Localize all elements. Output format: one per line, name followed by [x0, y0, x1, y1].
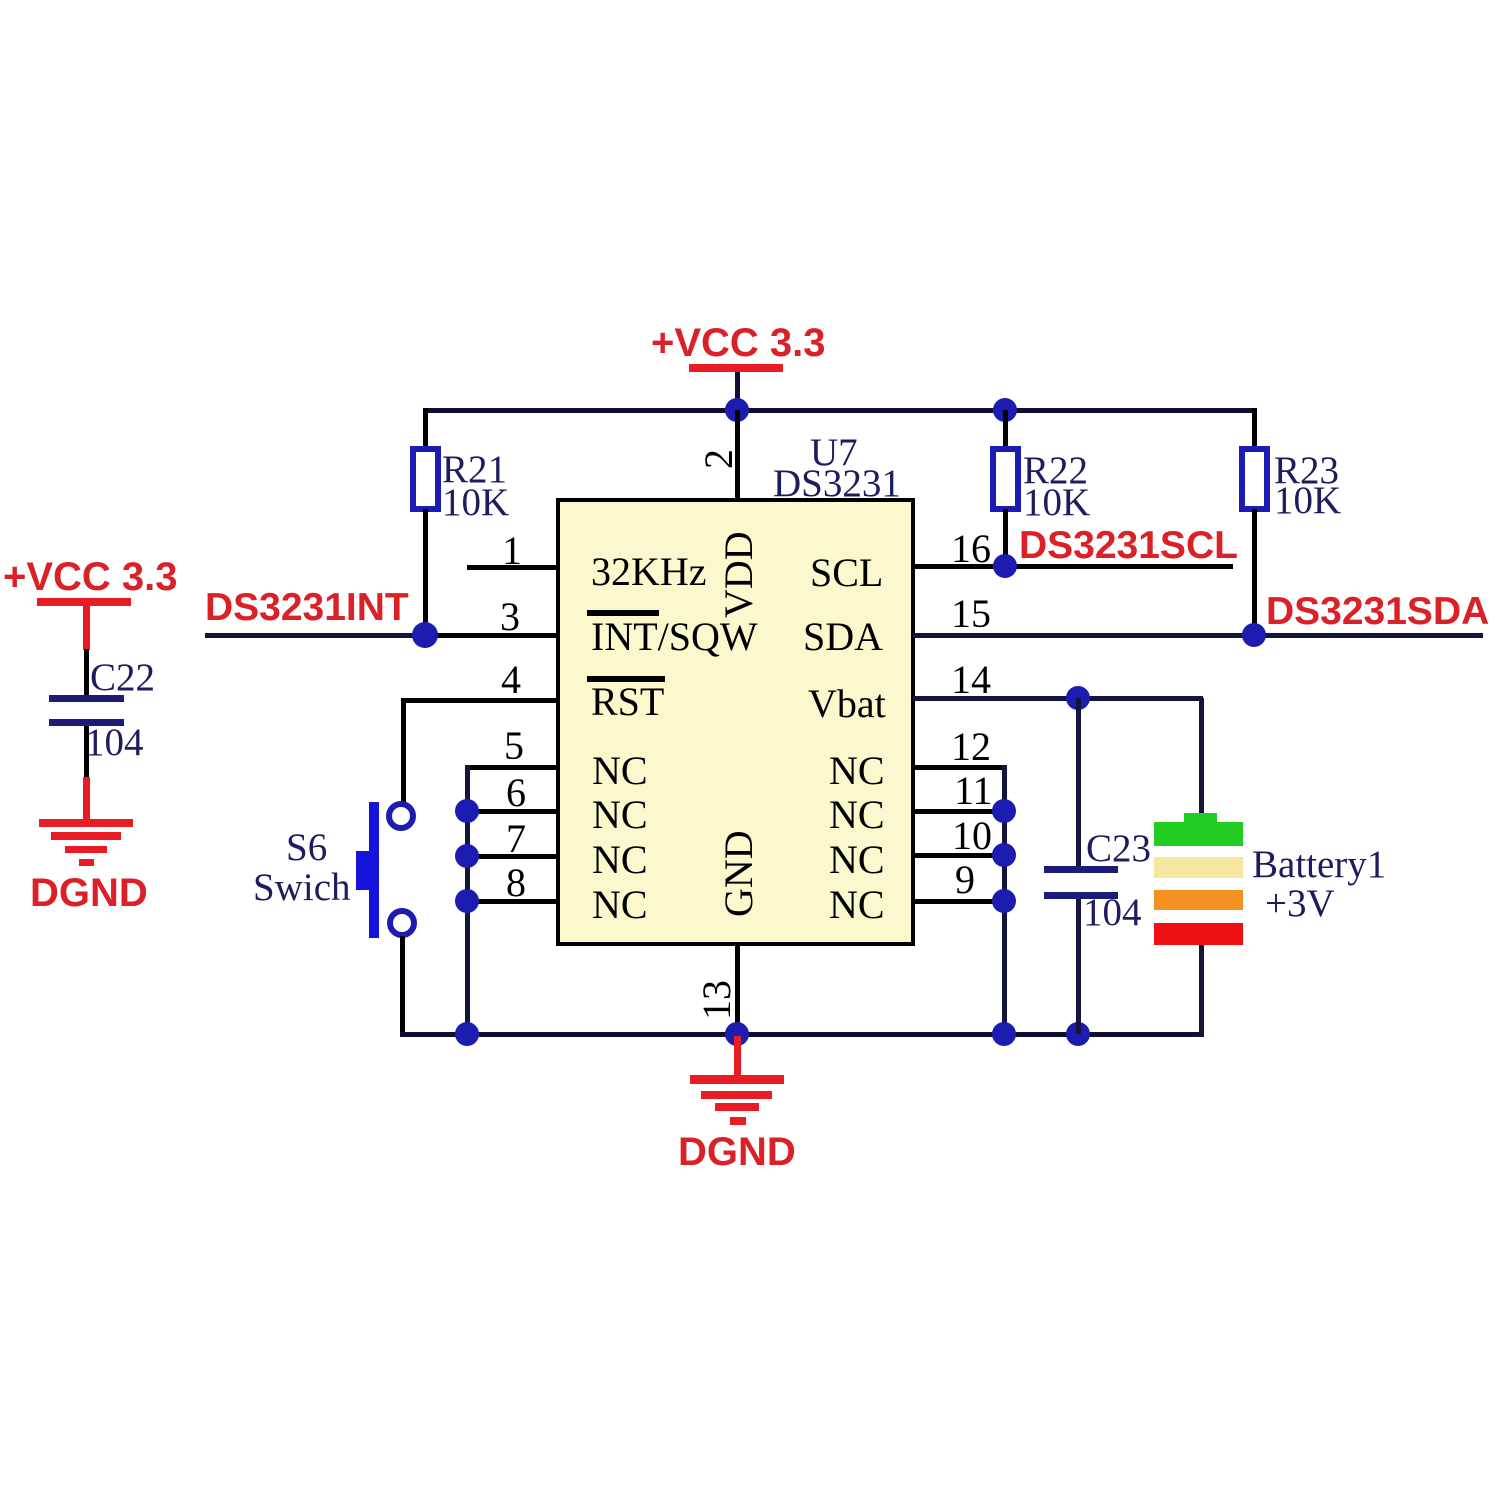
svg-text:10: 10: [952, 813, 992, 858]
svg-text:SDA: SDA: [803, 614, 883, 659]
svg-text:+VCC 3.3: +VCC 3.3: [3, 555, 178, 599]
wire VDD from VCC bar to top bus: [735, 372, 740, 412]
IC label RST with overline: [587, 676, 665, 724]
wire R22 top: [1003, 410, 1008, 450]
wire R21 top: [423, 408, 428, 450]
svg-text:16: 16: [951, 526, 991, 571]
wire right NC vertical: [1002, 765, 1007, 1036]
svg-text:DGND: DGND: [30, 871, 148, 915]
pin 8 NC wire: [467, 860, 558, 905]
svg-text:GND: GND: [716, 830, 761, 917]
node junction NC9: [992, 889, 1016, 913]
svg-text:+VCC 3.3: +VCC 3.3: [651, 321, 826, 365]
node junction top bus / R22: [993, 398, 1017, 422]
svg-text:NC: NC: [592, 748, 648, 793]
node junction R22/SCL: [993, 554, 1017, 578]
svg-text:NC: NC: [829, 792, 885, 837]
pin 14 Vbat wire: [913, 657, 1203, 702]
svg-text:+3V: +3V: [1265, 882, 1335, 925]
svg-text:11: 11: [954, 768, 993, 813]
wire R23 bottom to SDA node: [1252, 509, 1257, 635]
svg-text:13: 13: [694, 980, 739, 1020]
svg-text:DS3231SCL: DS3231SCL: [1019, 524, 1238, 567]
svg-text:SCL: SCL: [810, 550, 883, 595]
svg-text:10K: 10K: [1023, 481, 1090, 524]
node junction bus/GND13: [725, 1022, 749, 1046]
svg-text:DGND: DGND: [678, 1130, 796, 1174]
wire R21 bottom to node: [423, 509, 428, 635]
svg-text:Vbat: Vbat: [808, 681, 886, 726]
node junction R23/SDA: [1242, 623, 1266, 647]
svg-text:7: 7: [506, 816, 526, 861]
IC labels NC left column: [592, 748, 648, 927]
pin 5 NC wire: [467, 723, 558, 770]
pin 16 SCL wire: [913, 526, 1233, 571]
IC labels NC right column: [829, 748, 885, 927]
svg-text:NC: NC: [829, 837, 885, 882]
svg-text:14: 14: [951, 657, 991, 702]
node junction Vbat/C23: [1066, 686, 1090, 710]
pin 10 NC wire: [913, 813, 1004, 858]
svg-text:Swich: Swich: [253, 866, 351, 909]
ground DGND left: [30, 777, 148, 915]
svg-text:DS3231: DS3231: [773, 462, 901, 505]
svg-text:10K: 10K: [442, 481, 509, 524]
wire bottom bus: [400, 1032, 1203, 1037]
svg-text:3: 3: [500, 594, 520, 639]
node junction bus/NC-right: [992, 1022, 1016, 1046]
pin 11 NC wire: [913, 768, 1004, 814]
pin 9 NC wire: [913, 857, 1004, 904]
switch S6: [253, 802, 414, 938]
pin 7 NC wire: [467, 816, 558, 861]
node junction bus/NC-left: [455, 1022, 479, 1046]
svg-text:S6: S6: [286, 826, 327, 869]
wire RST down to switch: [401, 698, 406, 803]
svg-text:Battery1: Battery1: [1252, 843, 1386, 886]
svg-text:9: 9: [955, 857, 975, 902]
capacitor C22: [49, 649, 155, 778]
svg-text:10K: 10K: [1274, 479, 1341, 522]
wire R22 bottom to SCL node: [1003, 509, 1008, 566]
svg-text:1: 1: [502, 528, 522, 573]
svg-text:C23: C23: [1086, 827, 1151, 870]
svg-text:DS3231INT: DS3231INT: [205, 586, 409, 629]
wire switch bottom to bus: [400, 936, 405, 1036]
svg-text:15: 15: [951, 591, 991, 636]
power symbol +VCC 3.3 top: [651, 321, 826, 372]
pin 6 NC wire: [467, 770, 558, 815]
svg-text:6: 6: [506, 770, 526, 815]
svg-text:32KHz: 32KHz: [591, 549, 707, 594]
svg-text:DS3231SDA: DS3231SDA: [1266, 590, 1489, 633]
svg-text:104: 104: [85, 721, 144, 764]
svg-text:NC: NC: [829, 882, 885, 927]
svg-text:8: 8: [506, 860, 526, 905]
capacitor C23: [1044, 698, 1151, 1034]
svg-text:NC: NC: [592, 792, 648, 837]
wire top bus: [423, 408, 1257, 413]
pin 2 VDD wire: [696, 410, 741, 500]
resistor R22: [993, 449, 1090, 524]
IC label INT/SQW with overline: [587, 610, 758, 659]
node junction NC7: [455, 844, 479, 868]
pin 1 32KHz stub: [467, 528, 558, 573]
node junction NC6: [455, 799, 479, 823]
pin 13 GND wire: [694, 944, 740, 1036]
node junction NC11: [992, 799, 1016, 823]
pin 15 SDA wire: [913, 591, 1483, 638]
svg-text:NC: NC: [592, 882, 648, 927]
svg-text:4: 4: [501, 657, 521, 702]
wire DS3231INT net: [205, 633, 425, 638]
node junction NC10: [992, 843, 1016, 867]
node junction bus/C23: [1066, 1022, 1090, 1046]
wire R23 top: [1252, 408, 1257, 450]
pin 4 RST wire: [401, 657, 558, 703]
resistor R23: [1242, 449, 1341, 522]
node junction NC8: [455, 889, 479, 913]
op IC U7 DS3231 body: [558, 431, 913, 944]
pin 3 INT/SQW wire: [425, 594, 558, 639]
svg-text:C22: C22: [90, 656, 155, 699]
wire left NC vertical: [465, 765, 470, 1036]
resistor R21: [413, 448, 509, 524]
svg-text:VDD: VDD: [716, 531, 761, 618]
node junction top bus / VDD: [725, 398, 749, 422]
svg-text:12: 12: [951, 724, 991, 769]
svg-text:RST: RST: [591, 679, 664, 724]
svg-text:104: 104: [1083, 891, 1142, 934]
power symbol +VCC 3.3 left: [3, 555, 178, 650]
pin 12 NC wire: [913, 724, 1004, 770]
svg-text:INT/SQW: INT/SQW: [591, 614, 758, 659]
battery Battery1: [1154, 698, 1386, 1037]
svg-text:NC: NC: [829, 748, 885, 793]
svg-text:2: 2: [696, 449, 741, 469]
node junction INT/R21: [412, 622, 438, 648]
svg-text:NC: NC: [592, 837, 648, 882]
svg-text:5: 5: [504, 723, 524, 768]
ground DGND bottom: [678, 1036, 796, 1174]
